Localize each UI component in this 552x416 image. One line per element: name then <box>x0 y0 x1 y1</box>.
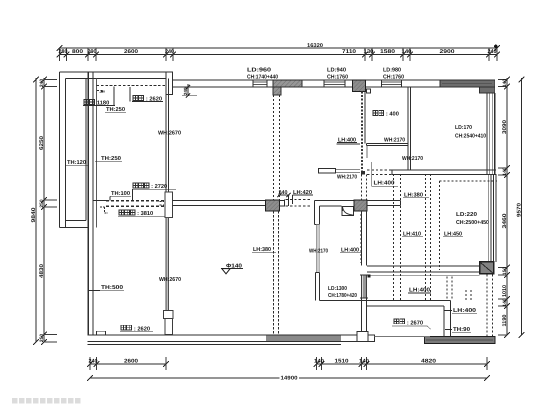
label wall-height 1180 <box>84 100 89 105</box>
window W3 top LD:980 <box>382 81 402 83</box>
beam dashes at pier <box>160 201 165 203</box>
svg-text:CH:1780+420: CH:1780+420 <box>328 293 357 299</box>
window LD:1300 <box>362 275 367 298</box>
svg-text:150: 150 <box>502 267 508 275</box>
node black dot <box>368 275 371 278</box>
svg-text:LD:980: LD:980 <box>383 67 401 73</box>
label sunken 400 <box>373 111 378 116</box>
svg-text:290: 290 <box>88 49 97 55</box>
svg-text:WH:2670: WH:2670 <box>159 277 181 283</box>
wire dashed hall left <box>359 214 361 263</box>
column middle-right <box>354 200 367 211</box>
dim bottom segments left <box>90 363 166 365</box>
wall right window LD:170 <box>486 94 488 175</box>
wall stub left of beam <box>93 200 106 202</box>
wall left-wing inner rect <box>85 79 87 221</box>
wall middle band left span <box>173 200 266 202</box>
svg-text:240: 240 <box>488 49 497 55</box>
svg-text:CH:2540+410: CH:2540+410 <box>455 133 486 139</box>
svg-text:140: 140 <box>314 358 324 364</box>
svg-text:9840: 9840 <box>31 208 37 223</box>
wall top-left inner <box>66 78 167 80</box>
marker small square <box>367 89 371 93</box>
wall kitchen divider upper <box>314 200 316 224</box>
wall bottom-right gray band <box>425 337 496 344</box>
svg-text:250: 250 <box>39 199 45 207</box>
svg-text:14900: 14900 <box>281 376 298 382</box>
svg-text:LD:170: LD:170 <box>455 125 472 131</box>
wall pier lower <box>164 311 174 319</box>
column T-beam top <box>273 80 302 87</box>
wall lower-left corner box <box>97 331 106 335</box>
svg-text:280: 280 <box>59 49 68 55</box>
wire dashed pair short bath <box>465 290 467 301</box>
dim left segments <box>43 78 45 342</box>
svg-text:16320: 16320 <box>307 43 323 49</box>
svg-text:1510: 1510 <box>335 358 349 364</box>
svg-text:CH:1740+440: CH:1740+440 <box>247 74 278 80</box>
junction block zipper end <box>361 171 365 175</box>
svg-text:6250: 6250 <box>39 136 45 150</box>
svg-text:WH:2170: WH:2170 <box>402 156 423 162</box>
wall kitchen divider lower <box>315 273 317 301</box>
door swing dining <box>342 199 355 201</box>
wall hall east upper <box>361 211 363 266</box>
wire dashed corridor opening <box>367 169 392 171</box>
wall bottom band left room <box>88 334 375 336</box>
wall pier upper <box>165 192 173 218</box>
wall top-right gray band <box>440 80 495 87</box>
window W1 top LD:960 <box>253 81 267 83</box>
dim top overall 16320 <box>60 47 498 49</box>
dim right segments <box>506 78 508 335</box>
svg-text:1190: 1190 <box>502 315 508 327</box>
wall west bottom stub <box>165 319 173 335</box>
dim mini 240 near top wall <box>187 84 189 96</box>
wall bedroom1 bottom band <box>392 169 496 171</box>
wall kitchen top edge <box>337 143 361 145</box>
svg-text:140: 140 <box>502 167 508 175</box>
dim bottom overall 14900 <box>90 377 487 379</box>
window kitchen divider <box>316 225 319 273</box>
wall bottom gray fill <box>266 336 341 341</box>
beam dashed step small <box>97 90 104 92</box>
svg-text:LD:220: LD:220 <box>456 212 477 218</box>
wall sunken room zipper <box>361 92 363 173</box>
wall main top band <box>173 79 495 81</box>
wire dashed right edge below column <box>486 275 488 337</box>
wall right window LD:220 <box>487 174 489 262</box>
svg-text:LD:960: LD:960 <box>247 67 271 73</box>
svg-text:140: 140 <box>502 298 508 306</box>
column bottom-right <box>480 262 494 274</box>
svg-text:2900: 2900 <box>440 49 455 55</box>
svg-text:240: 240 <box>89 358 98 364</box>
wall bath enclosure <box>320 299 451 301</box>
wall hall east lower <box>361 298 363 332</box>
wall middle band kitchen span <box>315 199 342 201</box>
svg-text:CH:1760: CH:1760 <box>383 74 404 80</box>
svg-text:1010: 1010 <box>502 285 508 297</box>
svg-text:WH:2170: WH:2170 <box>337 174 357 180</box>
svg-text:3090: 3090 <box>502 120 508 134</box>
label beam-below 2620 bottom <box>121 325 126 330</box>
column middle-left <box>266 200 280 211</box>
svg-text:4820: 4820 <box>421 358 436 364</box>
beam dashed heavy <box>106 200 165 202</box>
wall middle band stub right of column <box>280 199 285 201</box>
window west WH:2670 <box>166 218 169 311</box>
svg-text:240: 240 <box>183 87 188 95</box>
wall corridor thin continuation <box>335 169 361 171</box>
wall bottom threshold boxes <box>357 332 368 342</box>
svg-text:2600: 2600 <box>124 358 138 364</box>
column dark top-centre <box>353 80 366 92</box>
svg-text:7110: 7110 <box>342 49 356 55</box>
beam dashed corner small <box>100 206 105 208</box>
wire dashed pair E closet <box>425 174 427 301</box>
wall top-left outer <box>60 71 167 73</box>
wire dashed pair D closet <box>393 174 395 301</box>
wall middle band right span <box>367 200 401 202</box>
leader LH:400 corridor <box>371 162 373 187</box>
svg-text:LD:940: LD:940 <box>327 67 346 73</box>
wall left extra line <box>96 79 98 228</box>
svg-text:250: 250 <box>39 334 45 342</box>
wire dashed pair bath corner <box>446 277 448 301</box>
svg-text:240: 240 <box>165 49 174 55</box>
wall sunken room bottom <box>367 143 409 145</box>
svg-text:WH:2170: WH:2170 <box>384 137 405 143</box>
wall stub below sunken wall <box>366 146 368 158</box>
wire dashed rect bedroom2 <box>440 180 498 182</box>
wire dashed pair A upper <box>273 95 275 200</box>
wall bath sill line <box>375 336 431 338</box>
svg-text:140: 140 <box>359 358 369 364</box>
window W2 top LD:940 <box>324 81 345 83</box>
wire dashed pair A lower <box>273 211 275 335</box>
svg-text:800: 800 <box>72 49 83 55</box>
svg-text:140: 140 <box>402 49 412 55</box>
svg-text:LH:400: LH:400 <box>374 181 395 187</box>
watermark <box>12 398 17 403</box>
svg-text:130: 130 <box>364 49 374 55</box>
label beam-below 2670 <box>394 319 399 324</box>
svg-text:CH:2500+450: CH:2500+450 <box>456 220 489 226</box>
wall band lower-right rooms <box>367 265 480 267</box>
wall left-wing step <box>60 226 89 228</box>
wall left-wing outer <box>59 72 61 227</box>
wire dashed door opening <box>286 199 312 201</box>
svg-text:9570: 9570 <box>517 203 523 217</box>
wall pier top junction <box>166 72 173 95</box>
dim right outer 9570 <box>521 78 523 335</box>
dim left outer 9840 <box>35 78 37 342</box>
svg-text:: 400: : 400 <box>386 111 399 117</box>
wall left main pair <box>87 72 89 335</box>
svg-text:CH:1760: CH:1760 <box>327 74 348 80</box>
svg-text:240: 240 <box>39 79 45 87</box>
svg-text:140: 140 <box>502 79 508 87</box>
wall corridor bar <box>319 169 336 173</box>
label beam-below 2620 top <box>133 96 138 101</box>
svg-text:3460: 3460 <box>502 214 508 229</box>
dim top segments line <box>60 54 498 56</box>
dim bottom segments right <box>317 363 488 365</box>
svg-text:2600: 2600 <box>124 49 138 55</box>
beam dashed top-left room <box>97 85 166 87</box>
svg-text:1580: 1580 <box>380 49 395 55</box>
svg-text:4830: 4830 <box>39 264 45 278</box>
wall living west upper <box>165 79 167 193</box>
label outer-wall-height 3810 <box>119 210 124 215</box>
svg-text:LD:1300: LD:1300 <box>328 286 347 292</box>
svg-text:WH:2170: WH:2170 <box>309 249 328 255</box>
label beam-diff 2720 <box>133 183 138 188</box>
label TH:250 upper with leader <box>113 87 115 107</box>
svg-text:WH:2670: WH:2670 <box>158 130 181 136</box>
wire dashed pair C hall <box>361 175 363 201</box>
wall sunken room east <box>407 87 409 171</box>
